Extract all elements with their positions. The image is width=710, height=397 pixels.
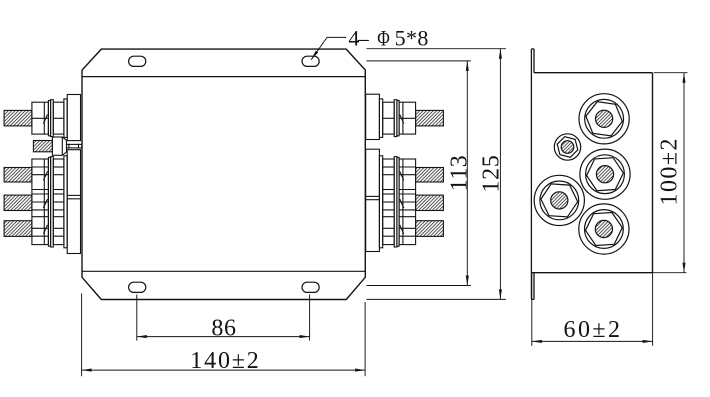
- dimension 100 extension lines: [653, 73, 688, 273]
- mounting slot top-left: [129, 56, 146, 66]
- terminal L4 stud: [4, 195, 32, 210]
- side view rear flange plate: [531, 49, 534, 300]
- dimension 86 line: [137, 336, 310, 338]
- mounting slot top-right: [302, 56, 319, 66]
- dimension 113 extension lines: [367, 61, 471, 286]
- ground terminal stud: [33, 141, 52, 152]
- label 4-phi5*8: [348, 25, 428, 51]
- svg-text:125: 125: [479, 155, 505, 193]
- side view body: [531, 73, 652, 273]
- right lower mounting plate: [366, 149, 380, 251]
- dimension 100 line: [683, 73, 685, 273]
- terminal L1 stud: [4, 110, 32, 126]
- side connector small (ground): [554, 134, 580, 160]
- side connector C3: [534, 175, 584, 225]
- terminal L1 spacer: [53, 102, 64, 134]
- svg-text:113: 113: [447, 155, 473, 191]
- terminal R1 washers: [394, 100, 399, 137]
- side connector C4 (bottom): [579, 204, 629, 254]
- ground terminal nut: [52, 137, 66, 155]
- dimension 86 extension lines: [137, 295, 310, 341]
- side connector C1 (top): [579, 94, 629, 144]
- arrowheads: [82, 49, 686, 372]
- top flange fold line: [82, 76, 365, 78]
- bottom flange fold line: [82, 270, 365, 272]
- terminal R4 stud: [416, 195, 444, 210]
- left lower washers: [48, 157, 53, 247]
- right lower washers: [394, 157, 399, 247]
- left lower mounting plate: [67, 150, 80, 254]
- terminal L1 washers: [48, 100, 53, 137]
- svg-text:4–: 4–: [348, 25, 369, 50]
- ground terminal screw shaft: [67, 144, 82, 149]
- left lower flange ring: [64, 156, 67, 248]
- dimension 140 line: [82, 369, 366, 371]
- terminal R1 nut: [399, 102, 416, 134]
- dimension 60 extension lines: [532, 273, 653, 346]
- terminal R1 spacer: [383, 102, 395, 134]
- terminal R3 stud: [416, 168, 444, 183]
- front view body outline: [82, 49, 365, 299]
- leader line 4-phi5*8: [311, 37, 346, 59]
- terminal L3 stud: [4, 168, 32, 183]
- terminal L1 mounting plate: [67, 95, 80, 141]
- dimension 125 extension lines: [367, 49, 506, 300]
- dimension 125 line: [499, 49, 501, 300]
- terminal R5 stud: [416, 221, 444, 237]
- terminal L1 nut: [32, 102, 49, 134]
- left lower spacer: [53, 159, 64, 245]
- terminal R1 stud: [416, 110, 444, 126]
- right lower spacer: [383, 159, 395, 245]
- terminal R1 flange ring: [379, 99, 382, 137]
- terminal L5 stud: [4, 221, 32, 237]
- svg-text:86: 86: [211, 316, 236, 342]
- mounting slot bottom-left: [129, 282, 146, 292]
- svg-text:140±2: 140±2: [190, 348, 258, 374]
- svg-text:60±2: 60±2: [564, 317, 621, 343]
- side connector C2: [580, 149, 630, 199]
- mounting slot bottom-right: [302, 282, 319, 292]
- right lower nut block: [399, 159, 416, 245]
- dimension 113 line: [466, 61, 468, 286]
- svg-text:5*8: 5*8: [395, 25, 429, 50]
- dimension 60 line: [532, 340, 653, 342]
- right lower flange ring: [379, 156, 382, 248]
- left lower nut block: [32, 159, 49, 245]
- terminal R1 mounting plate: [366, 94, 380, 139]
- terminal L1 flange ring: [64, 99, 67, 137]
- svg-text:100±2: 100±2: [657, 139, 683, 206]
- svg-text:Φ: Φ: [377, 26, 390, 51]
- dimension 140 extension lines: [82, 293, 366, 376]
